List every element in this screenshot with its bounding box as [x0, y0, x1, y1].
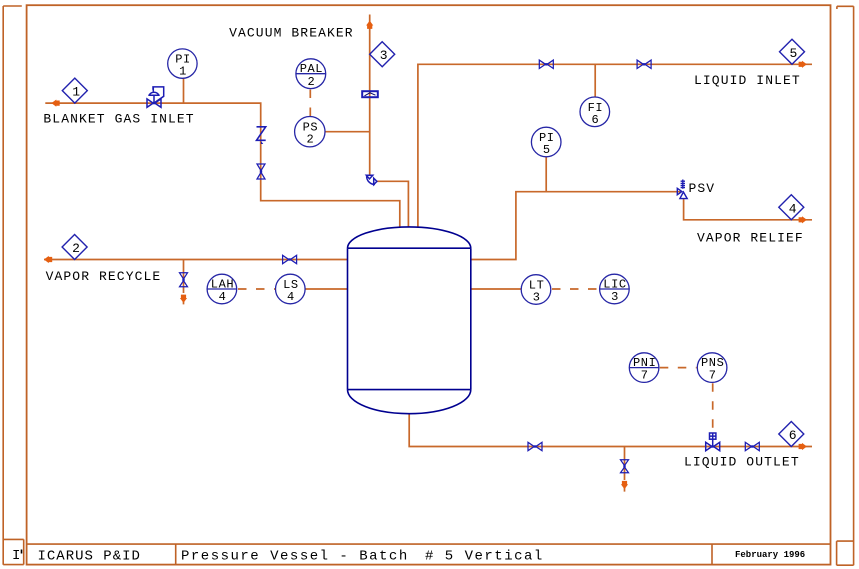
wire vapor recycle	[44, 259, 348, 261]
valve liquid outlet A	[528, 442, 542, 450]
arrow outlet drain (down)	[621, 481, 628, 489]
svg-text:5: 5	[789, 46, 797, 61]
instrument FI6	[580, 97, 610, 127]
instrument PAL2	[296, 59, 326, 89]
svg-text:7: 7	[709, 369, 717, 383]
instrument LIC3	[600, 274, 630, 304]
wire outlet drain	[624, 447, 626, 492]
arrow vapor relief (right)	[799, 216, 807, 223]
rupture disc (vacuum breaker)	[362, 91, 378, 97]
svg-text:2: 2	[307, 75, 315, 89]
relief valve PSV	[677, 180, 687, 199]
svg-text:February 1996: February 1996	[735, 550, 805, 560]
wire recycle drain	[183, 260, 185, 305]
instrument PI1	[168, 49, 197, 78]
svg-text:3: 3	[380, 48, 388, 63]
arrow liquid inlet (right)	[799, 61, 807, 68]
instrument PNI7	[629, 353, 659, 383]
node 2 vapor recycle	[62, 235, 87, 260]
control valve CV1 (blanket gas, diaphragm)	[147, 87, 164, 107]
wire LS4 to vessel	[305, 288, 347, 290]
instrument PI5	[531, 127, 561, 157]
signal PNS7 to valve	[712, 383, 714, 430]
node 5 liquid inlet	[780, 39, 805, 64]
wire vessel to LT3	[471, 288, 522, 290]
wire liquid inlet	[418, 64, 812, 227]
arrow liquid outlet (right)	[799, 443, 807, 450]
svg-text:4: 4	[287, 290, 295, 304]
svg-text:4: 4	[219, 290, 227, 304]
svg-text:VAPOR RECYCLE: VAPOR RECYCLE	[46, 269, 162, 284]
arrow vapor recycle (left)	[44, 256, 52, 263]
instrument circles	[168, 49, 727, 383]
arrow vacuum breaker (up)	[366, 21, 373, 29]
svg-text:VAPOR RELIEF: VAPOR RELIEF	[697, 231, 804, 246]
frame: left strip	[3, 6, 24, 565]
flow arrows	[44, 21, 807, 490]
control valve CV2 (liquid outlet, piston)	[706, 433, 720, 451]
valve liquid inlet B	[637, 60, 651, 68]
node 6 liquid outlet	[779, 422, 804, 447]
valve recycle drain (vertical)	[180, 273, 188, 287]
valve vapor recycle	[283, 255, 297, 263]
instrument PS2	[295, 117, 325, 147]
pipes	[44, 15, 812, 492]
wire PI5 stem	[545, 157, 547, 192]
svg-text:2: 2	[306, 133, 314, 147]
svg-text:5: 5	[543, 143, 551, 157]
svg-text:1: 1	[72, 85, 80, 100]
node 4 vapor relief	[779, 195, 804, 220]
svg-text:Pressure Vessel - Batch: Pressure Vessel - Batch	[181, 549, 409, 565]
signal LT3 to LIC3	[552, 288, 599, 290]
signal PNI7 to PNS7	[660, 367, 697, 369]
vessel V1	[348, 227, 471, 414]
svg-text:BLANKET GAS INLET: BLANKET GAS INLET	[43, 112, 194, 127]
svg-text:7: 7	[641, 369, 649, 383]
svg-text:PSV: PSV	[689, 181, 716, 196]
signal dashed lines	[238, 90, 713, 431]
svg-text:3: 3	[533, 291, 541, 305]
signal LAH4 to LS4	[238, 288, 275, 290]
svg-text:6: 6	[591, 113, 599, 127]
svg-text:VACUUM BREAKER: VACUUM BREAKER	[229, 25, 354, 40]
frame: title row	[27, 544, 831, 565]
instrument PNS7	[697, 353, 727, 383]
wire vapor relief	[684, 199, 812, 220]
frame: right strip	[837, 6, 854, 565]
wire PI1 stem	[183, 79, 185, 104]
wire liquid outlet	[409, 414, 812, 447]
instrument LT3	[521, 275, 551, 305]
signal PAL2 to PS2	[309, 90, 311, 117]
wire PS2 tap	[325, 131, 370, 133]
diamonds	[62, 39, 804, 446]
svg-text:6: 6	[789, 428, 797, 443]
valve liquid inlet A	[539, 60, 553, 68]
arrow recycle drain (down)	[180, 295, 187, 303]
svg-text:LIQUID INLET: LIQUID INLET	[694, 73, 801, 88]
wire FI6 stem	[594, 64, 596, 96]
svg-text:4: 4	[789, 201, 797, 216]
svg-text:ICARUS P&ID: ICARUS P&ID	[38, 549, 141, 565]
wire blanket gas inlet main run	[45, 103, 400, 227]
svg-text:I: I	[12, 548, 22, 564]
svg-text:# 5 Vertical: # 5 Vertical	[425, 549, 544, 565]
node 3 vacuum breaker	[370, 42, 395, 67]
valves (gate, horizontal)	[180, 60, 760, 473]
svg-text:LIQUID OUTLET: LIQUID OUTLET	[684, 455, 800, 470]
valve liquid outlet B	[745, 442, 759, 450]
valve blanket gas riser (vertical)	[257, 164, 265, 179]
svg-text:1: 1	[179, 65, 187, 79]
node 1 blanket gas	[62, 78, 87, 103]
strainer (blanket gas riser)	[257, 127, 266, 144]
instrument LAH4	[207, 274, 237, 304]
wire vacuum breaker to vessel	[377, 181, 409, 227]
wire vacuum breaker riser	[369, 15, 371, 176]
arrow blanket gas (left)	[51, 100, 59, 107]
svg-text:3: 3	[611, 290, 619, 304]
instrument LS4	[276, 274, 306, 304]
valve outlet drain (vertical)	[621, 460, 629, 473]
svg-text:2: 2	[72, 241, 80, 256]
elbow check (vacuum breaker outlet)	[366, 175, 377, 185]
wire PSV header	[471, 192, 682, 260]
